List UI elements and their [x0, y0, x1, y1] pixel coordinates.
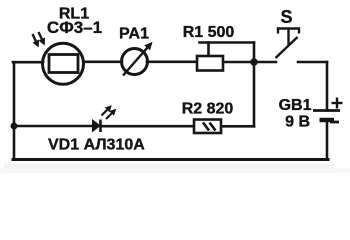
LED VD1 triangle [93, 120, 101, 132]
ammeter PA1 circle [122, 49, 148, 75]
resistor R1 [197, 56, 223, 71]
resistor R2 [194, 120, 221, 134]
photoresistor RL1 light arrow 1 [33, 34, 39, 47]
switch S lever [276, 37, 298, 58]
photoresistor RL1 circle [43, 43, 84, 84]
wire R2 to junction vertical [221, 125, 254, 128]
wire between RL1 and PA1 [84, 60, 122, 63]
ammeter PA1 pointer arrow [123, 43, 152, 76]
switch S pushbutton stem [287, 29, 289, 46]
junction dot on left vertical [11, 123, 18, 130]
svg-text:9 В: 9 В [285, 114, 310, 131]
battery GB1 positive plate [313, 109, 340, 112]
battery minus sign [330, 121, 339, 124]
wire bottom horizontal [13, 158, 328, 161]
battery plus sign [332, 98, 343, 109]
svg-text:СФ3–1: СФ3–1 [47, 18, 102, 37]
svg-text:R1 500: R1 500 [183, 24, 235, 41]
LED VD1 cathode bar [99, 120, 102, 133]
photoresistor RL1 body rect [49, 55, 78, 73]
LED VD1 emission arrow 2 [106, 110, 116, 120]
resistor R2 inner mark 1 [203, 123, 209, 131]
wire top-left segment [13, 61, 43, 64]
svg-text:R2 820: R2 820 [182, 101, 234, 118]
svg-text:VD1 АЛ310А: VD1 АЛ310А [48, 137, 145, 154]
LED VD1 emission arrow 1 [102, 106, 112, 116]
svg-text:S: S [280, 7, 292, 27]
svg-text:GB1: GB1 [279, 97, 312, 114]
battery GB1 negative plate [320, 118, 335, 123]
wire LED to R2 [101, 125, 194, 128]
resistor R2 inner mark 2 [210, 123, 216, 131]
wire switch right contact to right corner [298, 61, 327, 64]
wire R1 tap stub [207, 43, 210, 56]
wire between PA1 and R1 [147, 60, 197, 63]
wire left vertical [13, 62, 16, 159]
svg-text:PA1: PA1 [119, 26, 149, 43]
wire LED branch left segment [14, 125, 93, 128]
wire right vertical lower (battery - to bottom) [326, 120, 329, 160]
photoresistor RL1 light arrow 2 [39, 32, 45, 45]
wire junction vertical (R1 tap / R2 branch) [253, 43, 256, 127]
switch S pushbutton bar [278, 29, 299, 34]
wire right vertical upper (to battery +) [326, 62, 329, 111]
junction dot (node under R1) [250, 58, 258, 66]
wire between R1 and switch S [223, 61, 276, 64]
wire R1 tap horizontal [200, 41, 255, 44]
scan smudge along bottom edge [4, 164, 334, 169]
